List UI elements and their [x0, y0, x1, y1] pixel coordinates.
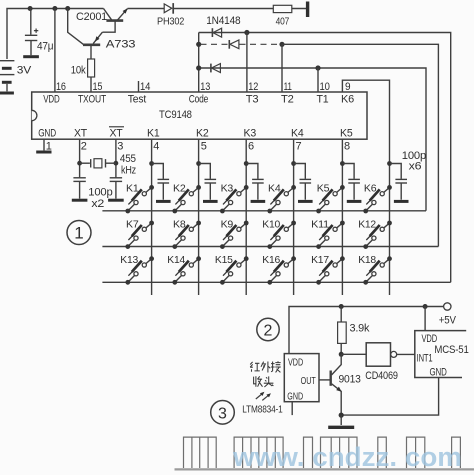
wire row3	[199, 68, 426, 211]
wire top rail	[7, 9, 306, 60]
svg-text:K1: K1	[147, 128, 160, 140]
capacitor 100p col2	[196, 161, 217, 201]
svg-text:VDD: VDD	[43, 94, 60, 106]
circled 2	[257, 318, 279, 340]
svg-text:K3: K3	[221, 183, 234, 195]
waveform pulse group B	[234, 437, 283, 468]
svg-text:K17: K17	[311, 254, 329, 266]
wire +5V rail	[289, 307, 444, 354]
svg-text:K4: K4	[268, 183, 281, 195]
inverter CD4069	[365, 343, 415, 382]
svg-text:2: 2	[81, 140, 87, 152]
svg-text:16: 16	[56, 81, 66, 93]
key K2	[172, 185, 201, 213]
wire keyboard column 1 (pin4)	[151, 139, 153, 295]
wire row2 dashed	[201, 43, 229, 45]
capacitor 100p col4	[291, 161, 312, 201]
capacitor 100p x2 left	[72, 178, 88, 200]
svg-text:10: 10	[320, 81, 330, 93]
wire keyboard column 6 lower	[389, 163, 391, 295]
wire LTM GND	[291, 402, 293, 415]
svg-text:T2: T2	[281, 94, 294, 106]
svg-text:GND: GND	[430, 367, 447, 379]
wire row2 dashed right	[240, 43, 281, 45]
svg-text:K13: K13	[120, 254, 138, 266]
transistor Q1 9013	[331, 354, 361, 415]
svg-text:K6: K6	[341, 94, 354, 106]
wire pin12	[246, 33, 248, 93]
diode D3 1N4148	[211, 64, 221, 73]
key K16	[267, 256, 296, 284]
transistor C2001	[76, 8, 128, 23]
wire keyboard row 1 (T1)	[102, 210, 426, 212]
waveform pulse group E	[378, 437, 387, 468]
svg-text:TC9148: TC9148	[159, 109, 192, 121]
wire keyboard row 3 (T3)	[102, 281, 450, 283]
terminal +5V	[444, 303, 451, 310]
wire LTM OUT to 9013 base	[319, 379, 331, 381]
svg-text:x6: x6	[409, 160, 422, 172]
capacitor 100p col5	[340, 161, 361, 201]
wire MCS GND return	[341, 378, 438, 416]
wire keyboard row 2 (T2)	[102, 246, 438, 248]
IC U1 TC9148	[32, 92, 367, 140]
wire keyboard column 5 (pin8)	[341, 139, 343, 295]
svg-text:K9: K9	[221, 218, 234, 230]
IC MCS-51	[415, 331, 469, 379]
key K7	[125, 221, 154, 249]
diode PH302	[157, 3, 185, 27]
waveform pulse group A	[184, 437, 217, 468]
wire driver base	[68, 9, 84, 45]
svg-text:K6: K6	[364, 183, 377, 195]
node pin12 row1	[244, 30, 249, 35]
svg-text:K18: K18	[358, 254, 376, 266]
svg-text:3V: 3V	[17, 65, 32, 77]
svg-text:K14: K14	[167, 254, 185, 266]
svg-text:5: 5	[201, 140, 207, 152]
pin numbers bottom	[46, 140, 350, 152]
key K11	[316, 221, 345, 249]
svg-text:XT: XT	[74, 128, 87, 140]
svg-text:K1: K1	[126, 183, 139, 195]
wire keyboard column 3 (pin6)	[245, 139, 247, 295]
circled 1	[67, 221, 91, 245]
svg-text:A733: A733	[106, 39, 136, 51]
label IR receiver chinese hong-wai-jie	[250, 361, 281, 372]
svg-text:www. cndzz. com: www. cndzz. com	[232, 442, 462, 472]
svg-text:407: 407	[276, 16, 290, 28]
IC LTM8834-1 receiver	[284, 354, 319, 403]
waveform pulse group D	[321, 437, 358, 468]
svg-text:8: 8	[344, 140, 350, 152]
waveform pulse group G	[452, 437, 461, 468]
capacitor 47u	[23, 6, 53, 57]
key K8	[172, 221, 201, 249]
node MCS VDD top	[423, 304, 428, 309]
waveform pulse group F	[407, 437, 425, 468]
svg-text:K5: K5	[317, 183, 330, 195]
key K17	[316, 256, 345, 284]
wire pin16	[54, 9, 56, 93]
key K10	[267, 221, 296, 249]
svg-text:K10: K10	[262, 218, 280, 230]
key K12	[363, 221, 392, 249]
svg-text:GND: GND	[38, 128, 56, 140]
svg-text:12: 12	[248, 81, 258, 93]
wire code column (pin13)	[198, 33, 200, 93]
node collector/input	[339, 352, 344, 357]
wire pin9 to column K6	[342, 80, 389, 163]
svg-text:K5: K5	[340, 128, 353, 140]
node pin10 row3	[315, 65, 320, 70]
svg-text:K8: K8	[173, 218, 186, 230]
svg-text:3.9k: 3.9k	[350, 323, 370, 335]
svg-text:2: 2	[264, 322, 273, 339]
ground	[328, 415, 354, 427]
svg-text:100p: 100p	[88, 186, 112, 198]
resistor 407	[273, 5, 292, 27]
pin 14 stub	[138, 81, 140, 92]
node 3.9k top	[339, 304, 344, 309]
capacitor 100p col1	[149, 161, 170, 201]
svg-text:OUT: OUT	[301, 375, 317, 387]
capacitor 100p x2 right	[88, 178, 123, 210]
svg-text:MCS-51: MCS-51	[434, 344, 468, 356]
node row2 left	[196, 42, 201, 47]
svg-text:K7: K7	[126, 218, 139, 230]
svg-text:GND: GND	[287, 391, 303, 403]
key K13	[125, 256, 154, 284]
IR arrows	[256, 392, 271, 401]
svg-text:14: 14	[140, 81, 150, 93]
svg-text:VDD: VDD	[288, 357, 303, 369]
pin1 ground	[36, 139, 51, 152]
svg-text:kHz: kHz	[121, 165, 136, 177]
svg-text:K16: K16	[262, 254, 280, 266]
key K5	[316, 185, 345, 213]
svg-text:PH302: PH302	[157, 15, 185, 27]
wire keyboard column 2 (pin5)	[198, 139, 200, 295]
wire row2 solid to right	[282, 44, 438, 246]
svg-text:1: 1	[74, 224, 83, 243]
svg-text:+5V: +5V	[439, 314, 457, 326]
svg-text:K2: K2	[196, 128, 209, 140]
svg-text:9: 9	[345, 81, 350, 93]
diode D1 1N4148	[212, 28, 221, 37]
circled 3	[211, 401, 235, 425]
terminal bar top right	[306, 2, 309, 18]
svg-text:K2: K2	[173, 183, 186, 195]
key K14	[172, 256, 201, 284]
key K6	[363, 185, 392, 213]
svg-text:K11: K11	[311, 218, 329, 230]
wire keyboard column 4 (pin7)	[293, 139, 295, 295]
pin numbers top	[56, 81, 350, 93]
svg-text:CD4069: CD4069	[365, 370, 398, 382]
svg-text:Test: Test	[128, 94, 146, 106]
svg-text:XT: XT	[110, 128, 123, 140]
svg-text:1N4148: 1N4148	[206, 15, 240, 27]
svg-text:7: 7	[296, 140, 302, 152]
wire pin10	[317, 68, 319, 92]
svg-text:K4: K4	[291, 128, 304, 140]
waveform baseline	[175, 468, 474, 470]
capacitor 100p col3	[244, 161, 265, 201]
node pin11 row2	[279, 42, 284, 47]
svg-text:C2001: C2001	[76, 11, 107, 23]
svg-text:K3: K3	[244, 128, 257, 140]
wire MCS VDD	[424, 307, 426, 331]
node VDD rail to pin16	[52, 6, 57, 11]
diode row T3 top	[199, 33, 451, 283]
node row3 left	[196, 65, 201, 70]
svg-text:3: 3	[218, 405, 227, 422]
svg-text:9013: 9013	[339, 373, 361, 385]
resistor 10k	[71, 59, 95, 92]
svg-text:3: 3	[117, 140, 123, 152]
diode D2 1N4148	[229, 40, 239, 49]
waveform pulse group C	[304, 437, 313, 468]
svg-text:K15: K15	[215, 254, 233, 266]
svg-text:K12: K12	[358, 218, 376, 230]
svg-text:13: 13	[200, 81, 210, 93]
svg-text:T1: T1	[317, 94, 329, 106]
svg-text:4: 4	[153, 140, 159, 152]
transistor A733	[83, 21, 135, 59]
capacitor 100p col6	[387, 161, 408, 201]
node emitter/gnd	[339, 413, 344, 418]
key K9	[220, 221, 249, 249]
svg-text:x2: x2	[91, 198, 104, 210]
key K15	[220, 256, 249, 284]
key K3	[220, 185, 249, 213]
svg-text:47μ: 47μ	[37, 41, 53, 53]
svg-text:6: 6	[248, 140, 254, 152]
key K18	[363, 256, 392, 284]
svg-text:11: 11	[284, 81, 292, 93]
label IR receiver chinese shou-tou	[254, 376, 274, 387]
key K1	[125, 185, 154, 213]
wire to inverter	[341, 353, 366, 355]
wire pin11	[281, 44, 283, 92]
crystal 455kHz	[77, 139, 136, 177]
svg-text:TXOUT: TXOUT	[78, 94, 106, 106]
svg-text:LTM8834-1: LTM8834-1	[242, 403, 283, 415]
resistor 3.9k	[338, 307, 370, 355]
svg-text:15: 15	[93, 81, 103, 93]
svg-text:10k: 10k	[71, 64, 86, 76]
svg-text:INT1: INT1	[417, 352, 433, 364]
svg-text:T3: T3	[246, 94, 259, 106]
svg-text:455: 455	[120, 153, 136, 165]
svg-text:Code: Code	[189, 94, 209, 106]
node rail to driver base	[65, 6, 70, 11]
key K4	[267, 185, 296, 213]
battery 3V	[0, 61, 32, 93]
